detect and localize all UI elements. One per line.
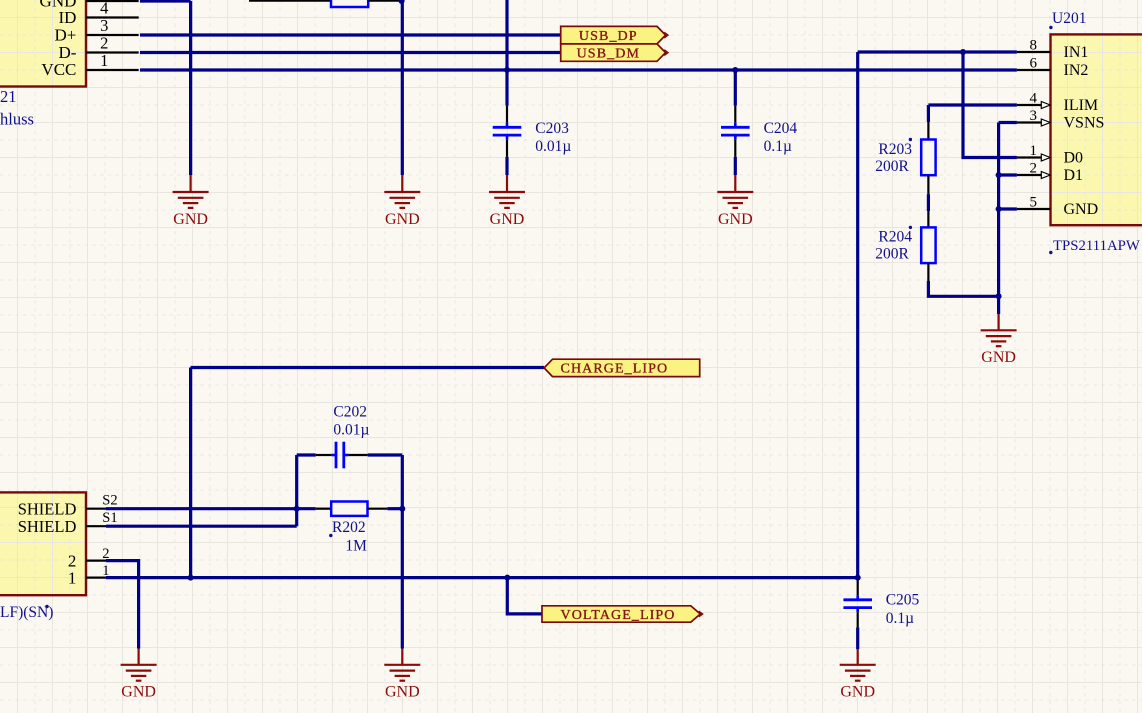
pin left of R202 [316, 508, 332, 510]
port USB_DM tip chevron [664, 50, 668, 56]
ground symbol below C204 [717, 175, 753, 228]
svg-text:C204: C204 [764, 120, 798, 137]
svg-text:VCC: VCC [41, 60, 76, 79]
junction R202 right / column B [399, 506, 405, 512]
wire column F vertical (VSNS/D1/GND net) [997, 123, 1000, 315]
pin bottom of C205 [857, 612, 859, 627]
svg-text:1: 1 [1030, 143, 1038, 159]
wire ILIM pin to R203 column [928, 103, 1017, 106]
wire GND pin to column A [140, 0, 191, 3]
wire D- to USB_DM port [140, 51, 561, 54]
resistor R204 [921, 227, 935, 263]
pin arrow D0 [1041, 154, 1050, 161]
svg-text:S2: S2 [102, 493, 117, 509]
resistor R203 [921, 140, 935, 176]
svg-text:0.1µ: 0.1µ [886, 610, 914, 627]
svg-text:R203: R203 [878, 141, 912, 158]
junction pin1 / CHARGE_LIPO [188, 575, 194, 581]
svg-text:5: 5 [1030, 195, 1038, 211]
svg-text:GND: GND [385, 684, 420, 701]
svg-text:2: 2 [1030, 161, 1038, 177]
parameter dot R204 [909, 226, 912, 229]
svg-text:2: 2 [102, 546, 109, 562]
svg-text:C205: C205 [886, 592, 920, 609]
svg-text:ILIM: ILIM [1064, 97, 1099, 114]
wire CHARGE_LIPO horizontal to port [191, 366, 544, 369]
junction pin1 / column D / C205 [855, 575, 861, 581]
wire S1 up to C202 row [295, 455, 298, 526]
svg-text:VSNS: VSNS [1064, 115, 1105, 132]
svg-text:6: 6 [1030, 56, 1038, 72]
svg-text:0.01µ: 0.01µ [535, 138, 571, 155]
pin right of C202 [348, 454, 367, 456]
junction GND pin / column F [996, 206, 1002, 212]
svg-text:R202: R202 [332, 519, 366, 536]
svg-text:C202: C202 [333, 403, 367, 420]
svg-text:GND: GND [840, 684, 875, 701]
svg-text:1: 1 [100, 51, 108, 70]
connector bottom-left body fill [0, 492, 86, 595]
parameter dot TPS2111APW [1049, 251, 1052, 254]
wire column B from top edge down to GND symbol [401, 0, 404, 175]
parameter dot R203 [909, 138, 912, 141]
wire column D long vertical (IN1 net) [856, 52, 859, 578]
ground symbol below X21 GND pin [173, 175, 209, 228]
capacitor C202 [331, 442, 348, 469]
wire VSNS pin to column F [999, 121, 1017, 124]
junction VCC / C204 [732, 67, 738, 73]
wire CHARGE_LIPO vertical [189, 368, 192, 578]
pin top of C204 [734, 106, 736, 123]
wire ILIM corner down to R203 [927, 105, 930, 122]
ground symbol below R202/C202 [384, 649, 420, 701]
svg-text:ID: ID [58, 8, 76, 27]
svg-text:200R: 200R [875, 245, 909, 262]
pin 3 VSNS of U201 [1017, 121, 1042, 123]
pin GND of X21 [86, 0, 139, 2]
capacitor C203 [493, 123, 522, 140]
junction at top resistor / column B [399, 0, 405, 4]
ground symbol column B top [384, 175, 420, 228]
svg-text:C203: C203 [535, 120, 569, 137]
ground symbol below C203 [489, 175, 525, 228]
svg-text:4: 4 [100, 0, 108, 18]
svg-text:GND: GND [173, 211, 208, 228]
wire D+ to USB_DP port [140, 33, 561, 36]
pin bottom of C203 [506, 140, 508, 157]
svg-text:S1: S1 [102, 510, 117, 526]
svg-text:SHIELD: SHIELD [18, 500, 77, 519]
port VOLTAGE_LIPO [542, 606, 700, 622]
wire C203 lower lead to GND symbol [505, 157, 508, 175]
svg-text:D0: D0 [1064, 150, 1084, 167]
wire C204 lower lead to GND symbol [734, 157, 737, 175]
svg-text:3: 3 [100, 16, 108, 35]
svg-text:D1: D1 [1064, 167, 1084, 184]
port USB_DP [561, 26, 666, 44]
svg-text:VOLTAGE_LIPO: VOLTAGE_LIPO [561, 608, 676, 623]
pin left of partial resistor at top edge [249, 0, 331, 2]
capacitor C205 [843, 595, 872, 612]
svg-text:GND: GND [718, 211, 753, 228]
wire D1 pin stub [999, 173, 1017, 176]
svg-text:3: 3 [1030, 108, 1038, 124]
wire between R203 and R204 [927, 194, 930, 211]
wire S2 to R202 [106, 507, 316, 510]
ground symbol below C205 [840, 649, 876, 701]
connector X21 body border (USB, cut off at left/top) [0, 0, 86, 87]
pin S1 of bottom connector [86, 525, 106, 527]
svg-text:R204: R204 [878, 229, 912, 246]
pin top of C205 [857, 579, 859, 595]
svg-text:8: 8 [1030, 38, 1038, 54]
parameter dot LF)(SN) [45, 605, 48, 608]
pin arrow D1 [1041, 172, 1050, 179]
svg-text:GND: GND [1064, 201, 1099, 218]
svg-text:2: 2 [100, 34, 108, 53]
parameter dot R202 [329, 534, 332, 537]
wire VCC to U201 IN2 [140, 68, 1017, 71]
wire column B bottom vertical to GND [401, 455, 404, 649]
svg-text:0.01µ: 0.01µ [333, 421, 369, 438]
wire to C202 left lead [297, 453, 316, 456]
svg-text:4: 4 [1030, 91, 1038, 107]
wire pin 2 down to GND [106, 561, 139, 649]
wire pin 1 net horizontal [106, 576, 858, 579]
port VOLTAGE_LIPO tip chevron [699, 611, 703, 617]
wire IN1 net horizontal to U201 IN1 [858, 50, 1017, 53]
resistor R202 [331, 502, 367, 516]
pin top of R203 [927, 122, 929, 140]
wire S1 horizontal [106, 525, 297, 528]
capacitor C204 [721, 123, 750, 140]
resistor (partial, top edge) [331, 0, 368, 7]
svg-text:hluss: hluss [0, 109, 34, 128]
svg-text:IN2: IN2 [1064, 62, 1089, 79]
wire to VOLTAGE_LIPO port [507, 578, 542, 614]
svg-text:IN1: IN1 [1064, 44, 1089, 61]
pin top of C203 [506, 106, 508, 123]
junction pin1 / VOLTAGE_LIPO [504, 575, 510, 581]
svg-text:SHIELD: SHIELD [18, 517, 77, 536]
pin right of R202 [368, 508, 388, 510]
junction D1 / column F [996, 172, 1002, 178]
svg-text:U201: U201 [1052, 10, 1086, 27]
pin ID of X21 [86, 16, 139, 18]
wire column A down to GND symbol [189, 1, 192, 175]
pin 8 IN1 of U201 [1017, 51, 1051, 53]
pin bottom of C204 [734, 140, 736, 157]
svg-text:USB_DP: USB_DP [579, 29, 638, 44]
op-amp U201 body fill [1051, 34, 1142, 225]
pin S2 of bottom connector [86, 508, 106, 510]
svg-text:CHARGE_LIPO: CHARGE_LIPO [561, 361, 669, 376]
svg-text:TPS2111APW: TPS2111APW [1053, 238, 1140, 254]
parameter dot U201 [1049, 26, 1052, 29]
port USB_DM [561, 44, 666, 61]
pin 2 D1 of U201 [1017, 174, 1042, 176]
pin 1 D0 of U201 [1017, 156, 1042, 158]
svg-text:1M: 1M [345, 537, 367, 554]
svg-text:USB_DM: USB_DM [577, 46, 640, 61]
wire R204 bottom to column F [928, 281, 998, 296]
wire U201 GND pin stub [999, 207, 1017, 210]
pin bottom of R204 [927, 263, 929, 281]
pin right of partial resistor at top edge [369, 0, 402, 2]
svg-text:1: 1 [102, 563, 109, 579]
pin arrow ILIM [1041, 102, 1050, 109]
ground symbol below pin 2 [121, 649, 157, 701]
junction IN1 / D0 branch [960, 49, 966, 55]
svg-text:GND: GND [121, 684, 156, 701]
pin 1 of bottom connector [86, 576, 106, 578]
pin 2 of bottom connector [86, 559, 106, 561]
svg-text:21: 21 [0, 87, 17, 106]
wire C202 right lead to column B [368, 453, 403, 456]
pin 5 GND of U201 [1017, 208, 1051, 210]
pin 6 IN2 of U201 [1017, 69, 1051, 71]
pin bottom of R203 [927, 175, 929, 194]
ground symbol below R204/column F [981, 314, 1017, 366]
pin top of R204 [927, 211, 929, 227]
op-amp U201 body border (TPS2111APW, cut off at right) [1051, 34, 1142, 225]
pin left of C202 [316, 454, 332, 456]
wire VCC junction down to C204 [734, 70, 737, 106]
pin D- of X21 [86, 51, 139, 53]
svg-text:1: 1 [68, 569, 77, 588]
svg-text:GND: GND [385, 211, 420, 228]
pin D+ of X21 [86, 34, 139, 36]
pin arrow VSNS [1041, 119, 1050, 126]
junction VCC / C203 [504, 67, 510, 73]
pin VCC of X21 [86, 69, 139, 71]
pin 4 ILIM of U201 [1017, 104, 1042, 106]
wire IN1 junction down to D0 pin [963, 52, 1017, 158]
junction S2 / S1 / C202 [294, 506, 300, 512]
svg-text:0.1µ: 0.1µ [764, 138, 792, 155]
port CHARGE_LIPO [544, 359, 700, 376]
connector X21 body fill [0, 0, 86, 87]
svg-text:D+: D+ [55, 26, 77, 45]
svg-text:GND: GND [490, 211, 525, 228]
wire C205 lower lead to GND symbol [856, 627, 859, 649]
connector bottom-left body border (battery conn, cut off at left) [0, 492, 86, 595]
svg-text:200R: 200R [875, 158, 909, 175]
wire R202 right to column B [387, 507, 402, 510]
svg-text:GND: GND [981, 349, 1016, 366]
junction R204 bottom / column F [996, 293, 1002, 299]
wire column C from top through VCC junction to C203 [505, 0, 508, 106]
port USB_DP tip chevron [664, 32, 668, 38]
